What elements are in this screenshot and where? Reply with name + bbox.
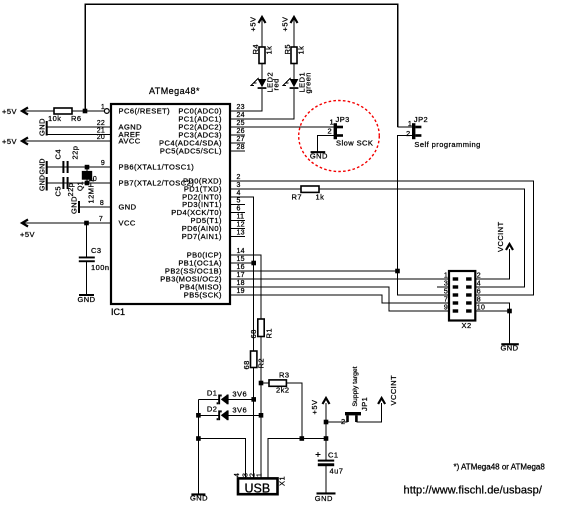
resistor R6	[48, 108, 82, 123]
wire JP1 pin2	[326, 421, 348, 423]
svg-text:green: green	[304, 72, 313, 93]
wire GND vertical left of USB	[197, 399, 199, 493]
wire PD1 pin3 to R7	[230, 188, 301, 190]
wire R6 to IC pin1	[72, 110, 104, 112]
svg-text:26: 26	[237, 128, 245, 135]
IC right stub pins 5,6,11,12,13	[230, 204, 245, 206]
wire R4 to +5V	[261, 19, 263, 47]
ground at C5	[39, 175, 47, 191]
wire X2 pin2 to VCCINT	[475, 249, 509, 279]
svg-text:PD7(AIN1): PD7(AIN1)	[182, 232, 222, 241]
LED D2 red	[251, 72, 281, 93]
svg-text:19: 19	[237, 288, 245, 295]
svg-text:GND: GND	[315, 494, 333, 503]
red ellipse highlight	[299, 101, 380, 172]
svg-text:11: 11	[237, 214, 245, 221]
svg-text:22p: 22p	[71, 146, 80, 160]
wire PD2 pin4 / USB D+ vertical	[230, 197, 254, 351]
svg-text:100n: 100n	[91, 263, 110, 272]
node PB1/D+ junction	[251, 261, 256, 266]
wire PB1 pin15 to D+	[230, 262, 254, 264]
svg-text:3: 3	[242, 473, 249, 477]
svg-text:23: 23	[237, 104, 245, 111]
svg-text:22: 22	[97, 120, 105, 127]
svg-text:10: 10	[477, 305, 485, 312]
svg-text:25: 25	[237, 120, 245, 127]
IC1 right pin names	[159, 107, 222, 300]
ground at X2	[501, 343, 519, 352]
diode D2 3V6	[198, 405, 261, 421]
svg-text:PB6(XTAL1/TOSC1): PB6(XTAL1/TOSC1)	[119, 163, 195, 172]
svg-text:+5V: +5V	[20, 230, 35, 239]
svg-text:JP1: JP1	[360, 397, 369, 411]
svg-text:16: 16	[237, 264, 245, 271]
svg-text:PC5(ADC5/SCL): PC5(ADC5/SCL)	[160, 147, 222, 156]
svg-text:ATMega48*: ATMega48*	[149, 86, 200, 96]
svg-text:http://www.fischl.de/usbasp/: http://www.fischl.de/usbasp/	[404, 485, 543, 497]
svg-text:3V6: 3V6	[232, 406, 247, 415]
svg-text:C5: C5	[54, 186, 63, 197]
node pin8/pin10 junction	[507, 309, 512, 314]
svg-text:C3: C3	[91, 246, 102, 255]
svg-text:13: 13	[237, 230, 245, 237]
resistor R2	[242, 351, 266, 370]
svg-text:+5V: +5V	[310, 400, 319, 415]
svg-text:Supply target: Supply target	[352, 366, 359, 406]
svg-text:4: 4	[477, 281, 481, 288]
svg-text:VCCINT: VCCINT	[496, 221, 505, 252]
+5V arrow at pin1	[2, 107, 28, 116]
node D2/D- junction	[259, 413, 264, 418]
svg-text:X1: X1	[278, 476, 287, 486]
svg-text:22p: 22p	[66, 183, 75, 197]
VCCINT arrow at X2	[496, 221, 513, 252]
node +5V rail / C1 junction	[324, 436, 329, 441]
svg-text:GND: GND	[119, 203, 137, 212]
resistor R3	[269, 371, 290, 395]
wire C3 top	[86, 223, 88, 257]
IC right stub pins 26,27,28	[230, 134, 245, 136]
wire R7 to X2 pin4	[319, 189, 525, 287]
resistor R4	[251, 44, 274, 64]
svg-text:JP3: JP3	[336, 115, 350, 124]
svg-text:68: 68	[249, 329, 258, 338]
svg-text:14: 14	[237, 248, 245, 255]
svg-text:10: 10	[89, 176, 97, 183]
svg-text:3: 3	[237, 182, 241, 189]
svg-text:red: red	[272, 78, 281, 90]
capacitor C1	[316, 451, 344, 476]
svg-text:VCC: VCC	[119, 219, 136, 228]
svg-text:R7: R7	[292, 193, 303, 202]
ground below left vertical	[190, 493, 208, 502]
svg-text:+5V: +5V	[281, 17, 290, 32]
wire LED2 to R4	[261, 64, 263, 80]
svg-text:USB: USB	[245, 482, 271, 496]
svg-text:+5V: +5V	[2, 107, 17, 116]
wire pin8 GND	[79, 206, 110, 208]
node VCC/C3 junction	[84, 221, 89, 226]
svg-text:GND: GND	[190, 494, 208, 503]
svg-text:PC6(/RESET): PC6(/RESET)	[119, 107, 171, 116]
wire C3 bottom	[86, 262, 88, 295]
svg-text:18: 18	[237, 280, 245, 287]
svg-text:1: 1	[444, 273, 448, 280]
resistor R7	[292, 186, 325, 202]
svg-text:12: 12	[237, 222, 245, 229]
pin 1 inversion bubble	[104, 109, 109, 114]
svg-text:*) ATMega48 or ATMega8: *) ATMega48 or ATMega8	[454, 463, 546, 472]
wire AREF pin21 to GND	[48, 134, 111, 136]
svg-text:7: 7	[99, 216, 103, 223]
X2 right pin numbers	[477, 273, 485, 312]
svg-text:20: 20	[97, 134, 105, 141]
svg-text:28: 28	[237, 144, 245, 151]
wire PB4 pin18 to X2 pin9 MISO	[230, 287, 449, 311]
svg-text:GND: GND	[501, 344, 519, 353]
svg-text:3V6: 3V6	[232, 390, 247, 399]
svg-text:GND: GND	[37, 118, 46, 136]
svg-text:PB5(SCK): PB5(SCK)	[184, 291, 222, 300]
svg-text:JP2: JP2	[414, 115, 428, 124]
wire X2 pin10 to GND	[475, 311, 509, 343]
node R3/D- junction	[259, 381, 264, 386]
svg-text:7: 7	[444, 297, 448, 304]
connector X1 USB	[234, 473, 287, 496]
svg-text:3: 3	[444, 281, 448, 288]
svg-text:24: 24	[237, 112, 245, 119]
svg-text:R5: R5	[283, 44, 292, 55]
wire USB pin1 +5V rail	[268, 439, 326, 479]
wire C1 to GND	[325, 466, 327, 492]
wire GND rail to USB pin4	[198, 439, 245, 479]
svg-text:R2: R2	[257, 358, 266, 369]
node D1/D+ junction	[251, 397, 256, 402]
svg-text:9: 9	[444, 305, 448, 312]
X2 left pin numbers	[444, 273, 448, 312]
wire PB0 pin14 / USB D- vertical	[230, 255, 261, 319]
wire JP2 pin1	[398, 126, 413, 128]
svg-text:R1: R1	[265, 328, 274, 339]
svg-text:X2: X2	[462, 321, 472, 330]
svg-text:4: 4	[234, 473, 241, 477]
ground at JP3	[310, 151, 328, 160]
capacitor C3	[79, 246, 110, 272]
wire JP3 pin2 to GND	[318, 136, 334, 152]
VCCINT arrow at JP1	[378, 375, 398, 406]
svg-text:Q1: Q1	[78, 181, 85, 191]
wire PB3 pin17 to X2 pin1 MOSI	[230, 278, 449, 280]
svg-text:4: 4	[237, 190, 241, 197]
+5V arrow at pin7	[20, 220, 35, 240]
ground below C1	[315, 492, 336, 502]
svg-text:GND: GND	[39, 175, 46, 191]
svg-text:R4: R4	[251, 44, 260, 55]
wire D- below R1	[260, 337, 262, 479]
wire PB5 pin19 to X2 pin7 SCK	[230, 295, 449, 303]
svg-text:GND: GND	[78, 295, 96, 304]
svg-text:2: 2	[406, 129, 411, 138]
wire X2 pin8	[475, 303, 509, 311]
+5V arrow at pin20	[2, 137, 28, 146]
svg-text:2: 2	[237, 174, 241, 181]
node D2/GND junction	[196, 413, 201, 418]
IC1 right pin numbers	[237, 104, 245, 295]
wire AGND pin22 to GND	[48, 126, 111, 128]
node R3/+5V rail junction	[300, 436, 305, 441]
svg-text:15: 15	[237, 256, 245, 263]
node JP1 branch junction	[324, 420, 329, 425]
wire AVCC pin20 to +5V	[22, 140, 110, 142]
IC1 left pin numbers	[89, 104, 105, 223]
svg-text:C1: C1	[328, 451, 339, 460]
svg-text:Self programming: Self programming	[414, 140, 480, 149]
wire PB2 pin16 to RESET net	[230, 270, 398, 272]
resistor R1	[249, 319, 273, 339]
ground AGND/AREF	[37, 118, 47, 136]
wire JP2 pin2 down to X2 pin5	[398, 136, 450, 296]
wire D+ below R2	[253, 368, 255, 479]
wire pin7 VCC +5V	[22, 222, 110, 224]
wire R3 right to +5V rail	[286, 383, 301, 439]
svg-text:27: 27	[237, 136, 245, 143]
connector X2 ISP header	[449, 271, 475, 330]
svg-text:4u7: 4u7	[330, 467, 344, 476]
svg-text:2k2: 2k2	[276, 386, 289, 395]
svg-text:2: 2	[341, 417, 346, 426]
svg-text:17: 17	[237, 272, 245, 279]
svg-text:9: 9	[101, 160, 105, 167]
ground at C3	[78, 294, 96, 304]
svg-text:R3: R3	[279, 371, 290, 380]
wire R3 left	[261, 382, 269, 384]
wire PD0 pin2 to X2 pin6	[230, 181, 533, 295]
svg-text:10k: 10k	[48, 114, 61, 123]
svg-text:+5V: +5V	[2, 137, 17, 146]
svg-text:R6: R6	[71, 114, 82, 123]
wire pin10 XTAL2	[48, 182, 110, 184]
svg-text:AVCC: AVCC	[119, 137, 141, 146]
node PB2/RESET junction	[395, 269, 400, 274]
wire pin9 XTAL1	[48, 166, 110, 168]
svg-text:C4: C4	[54, 149, 63, 160]
svg-text:5: 5	[237, 198, 241, 205]
svg-text:D2: D2	[207, 405, 218, 414]
svg-text:1: 1	[257, 473, 264, 477]
svg-text:1k: 1k	[265, 46, 274, 55]
wire pin23 to LED2 chain	[230, 89, 262, 111]
svg-text:2: 2	[328, 126, 333, 135]
+5V arrow above C1	[310, 398, 330, 415]
IC1 left pin names	[119, 107, 195, 228]
wire R5 to +5V	[293, 19, 295, 47]
wire pin24 to LED1 chain	[230, 89, 294, 119]
svg-text:IC1: IC1	[111, 307, 125, 317]
svg-text:GND: GND	[70, 196, 79, 214]
svg-text:8: 8	[477, 297, 481, 304]
jumper JP3	[328, 115, 374, 148]
svg-text:1k: 1k	[316, 193, 325, 202]
svg-text:2: 2	[477, 273, 481, 280]
resistor R5	[283, 44, 306, 64]
svg-text:6: 6	[477, 289, 481, 296]
LED D1 green	[283, 72, 313, 94]
svg-text:D1: D1	[207, 389, 218, 398]
wire RESET top frame	[85, 4, 398, 127]
svg-text:Slow SCK: Slow SCK	[336, 139, 373, 148]
ground at C4	[39, 158, 47, 174]
+5V arrow above R4	[249, 17, 266, 32]
diode D1 3V6	[198, 389, 253, 405]
wire pin25 to JP3	[230, 126, 334, 128]
crystal Q1	[78, 165, 96, 204]
wire +5V to R6 pin1	[22, 110, 54, 112]
X2 pin3 stub	[437, 286, 449, 288]
svg-text:+5V: +5V	[249, 17, 258, 32]
svg-text:1: 1	[330, 118, 335, 127]
svg-text:1: 1	[101, 104, 105, 111]
capacitor C4	[54, 146, 80, 173]
jumper JP1	[341, 366, 369, 426]
node pin1/R6 junction	[83, 109, 88, 114]
svg-text:6: 6	[237, 206, 241, 213]
svg-text:1k: 1k	[297, 46, 306, 55]
ground at pin8	[70, 196, 81, 214]
node GND rail junction	[196, 436, 201, 441]
svg-text:GND: GND	[39, 158, 46, 174]
capacitor C5	[54, 177, 76, 197]
wire LED1 to R5	[293, 64, 295, 80]
wire +5V vertical at C1	[325, 403, 327, 460]
wire JP1 pin1 to VCCINT	[356, 403, 381, 422]
svg-text:8: 8	[100, 200, 104, 207]
svg-text:VCCINT: VCCINT	[389, 375, 398, 406]
+5V arrow above R5	[281, 17, 298, 32]
jumper JP2	[406, 115, 481, 149]
svg-text:5: 5	[444, 289, 448, 296]
svg-text:GND: GND	[310, 151, 328, 160]
op-amp IC1 ATMega48 box	[111, 86, 230, 317]
svg-text:68: 68	[242, 360, 251, 369]
